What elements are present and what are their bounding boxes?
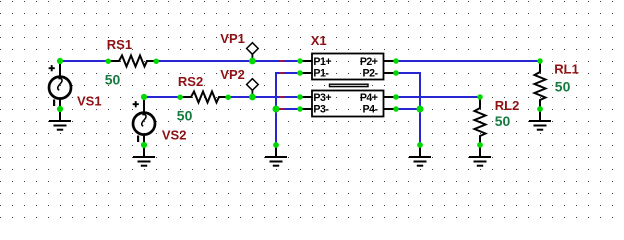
node P3- — [297, 106, 303, 112]
net marker P3+ — [280, 96, 285, 98]
node RL1 top — [537, 58, 543, 64]
svg-text:P4-: P4- — [363, 104, 379, 116]
node VP2 junction — [249, 94, 256, 101]
ground (net P2-/P4-) — [409, 145, 431, 166]
node VP1 junction — [249, 58, 256, 65]
resistor RL1 — [535, 61, 546, 109]
node VS1+ — [57, 58, 63, 64]
wire RS1 to P1+ — [156, 60, 300, 62]
node ground net 1 — [273, 142, 279, 148]
node P1- — [297, 70, 303, 76]
resistor RS1 — [108, 56, 156, 67]
probe VP1 — [247, 43, 259, 61]
svg-text:RL2: RL2 — [495, 98, 520, 113]
node P2- — [393, 70, 399, 76]
ground (net P1-/P3-) — [265, 145, 287, 166]
svg-text:RL1: RL1 — [554, 62, 579, 77]
svg-text:RS2: RS2 — [178, 74, 203, 89]
net marker P1+ — [280, 60, 285, 62]
ground (RL1) — [529, 109, 551, 130]
source VS2 — [133, 97, 155, 145]
svg-text:VS2: VS2 — [162, 127, 187, 142]
wire P4+ to RL2 — [396, 96, 480, 98]
resistor RL2 — [475, 97, 486, 145]
ground (VS2) — [133, 145, 155, 166]
wire P2- to ground net — [396, 73, 420, 145]
svg-text:P1+: P1+ — [313, 56, 331, 68]
svg-text:VS1: VS1 — [77, 93, 102, 108]
node RS1 right — [153, 58, 159, 64]
wire P3- to junction — [276, 108, 300, 110]
wire RS2 to P3+ — [228, 96, 300, 98]
svg-text:VP1: VP1 — [220, 31, 245, 46]
node dots — [57, 58, 543, 148]
wire P1- to ground net — [276, 73, 300, 145]
svg-text:P2+: P2+ — [360, 56, 378, 68]
node ground net 2 — [417, 142, 423, 148]
svg-text:50: 50 — [105, 71, 121, 87]
net marker P1- — [280, 72, 285, 74]
svg-text:50: 50 — [177, 107, 193, 123]
ground (VS1) — [49, 109, 71, 130]
node VS1- — [57, 106, 63, 112]
svg-text:50: 50 — [495, 113, 511, 129]
node P3+ — [297, 94, 303, 100]
node P2+ — [393, 58, 399, 64]
resistor RS2 — [180, 92, 228, 103]
node P4- net junction — [417, 106, 424, 113]
probe VP2 — [247, 79, 259, 97]
svg-text:P1-: P1- — [313, 68, 329, 80]
node RL2 bottom — [477, 142, 483, 148]
node VS2+ — [141, 94, 147, 100]
node P4+ — [393, 94, 399, 100]
node RL1 bottom — [537, 106, 543, 112]
wire VS1 to RS1 — [60, 60, 108, 62]
svg-text:50: 50 — [555, 78, 571, 94]
node RS2 left — [177, 94, 183, 100]
node RS1 left — [105, 58, 111, 64]
svg-text:P4+: P4+ — [360, 92, 378, 104]
node P4- — [393, 106, 399, 112]
source VS1 — [49, 61, 71, 109]
node VS2- — [141, 142, 147, 148]
ground (RL2) — [469, 145, 491, 166]
node P3- net junction — [273, 106, 280, 113]
node RL2 top — [477, 94, 483, 100]
wire VS2 to RS2 — [144, 96, 180, 98]
wire P2+ to RL1 — [396, 60, 540, 62]
node RS2 right — [225, 94, 231, 100]
svg-text:P3-: P3- — [313, 104, 329, 116]
svg-text:RS1: RS1 — [107, 37, 132, 52]
svg-text:P2-: P2- — [363, 68, 379, 80]
svg-text:X1: X1 — [311, 33, 327, 48]
svg-text:VP2: VP2 — [220, 67, 245, 82]
svg-text:P3+: P3+ — [313, 92, 331, 104]
transformer X1 — [300, 54, 396, 117]
net marker P3- — [280, 108, 285, 110]
node P1+ — [297, 58, 303, 64]
wire P4- to junction — [396, 108, 420, 110]
